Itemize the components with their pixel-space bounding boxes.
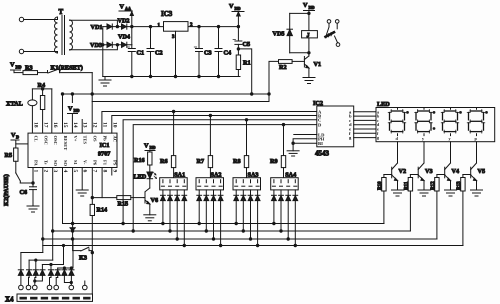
transformer T (55, 8, 73, 55)
svg-text:X4: X4 (5, 296, 14, 304)
wire bridge top line (103, 26, 132, 28)
diode matrix D6 (55, 268, 60, 275)
diode SA3 column 3 (248, 190, 253, 240)
wire R2 left to V rail vertical (268, 61, 279, 101)
switch K3 (73, 239, 92, 268)
wire R13 to bus (462, 245, 464, 247)
node VD1-VD2 junction (116, 25, 118, 27)
capacitor C4 (215, 27, 231, 77)
wire secondary bottom to bridge (70, 45, 117, 50)
svg-text:S1: S1 (73, 160, 78, 166)
wire secondary top to bridge (70, 20, 117, 26)
IC1 top pin numbers (33, 122, 118, 128)
diode SA3 column 2 (241, 190, 246, 232)
switch SA4 (271, 172, 299, 190)
svg-text:V5: V5 (478, 168, 486, 175)
diode SA2 column 4 (218, 190, 223, 247)
svg-text:RESET: RESET (63, 136, 68, 151)
wire C5 junction to V rail line (237, 48, 252, 94)
terminal circle 2 (26, 285, 31, 290)
wire matrix diode D5 to terminal (50, 275, 52, 285)
wire bridge bottom line (103, 44, 132, 46)
LED display input pin labels (377, 109, 380, 140)
resistor R6 (160, 112, 176, 178)
bus line L3 (43, 238, 437, 240)
node IC3 output rail (237, 25, 239, 27)
svg-text:LED: LED (134, 174, 147, 181)
svg-text:DD: DD (74, 108, 80, 113)
node VD3-VD4 junction (116, 44, 118, 46)
IC1 inside bottom labels (34, 160, 118, 167)
supply V rail after bridge (119, 4, 133, 49)
svg-text:K3: K3 (79, 255, 87, 262)
svg-text:16: 16 (52, 122, 58, 128)
ground rail power supply (103, 75, 240, 77)
capacitor C2 (147, 27, 163, 77)
switch SA2 (196, 172, 224, 190)
svg-text:R5: R5 (5, 152, 13, 159)
svg-text:V+: V+ (73, 136, 78, 142)
svg-text:R9: R9 (270, 158, 278, 165)
svg-text:V1: V1 (314, 61, 322, 68)
svg-text:12: 12 (92, 122, 98, 128)
resistor R7 (197, 116, 213, 178)
resistor R9 (270, 125, 286, 178)
wire pin8 drop (101, 168, 103, 198)
supply V pin14 (68, 94, 80, 133)
diode matrix D4 (40, 265, 45, 276)
terminal stub unused (84, 281, 86, 285)
node C4 top (217, 25, 219, 27)
svg-text:C3: C3 (204, 50, 212, 57)
terminal circle 6 (69, 285, 74, 290)
wire pin9 stub (111, 168, 113, 176)
svg-text:T: T (59, 8, 64, 16)
svg-text:C5: C5 (243, 41, 251, 48)
diode SA1 column 2 (168, 190, 173, 232)
wire rail to IC3 input (132, 26, 164, 28)
LED display box (376, 101, 495, 142)
terminal circle 4 (47, 285, 52, 290)
ground symbol power supply (99, 77, 111, 87)
supply V rail IC3 output (229, 3, 244, 41)
terminal input bottom (19, 49, 56, 53)
wire IC2 BI (293, 142, 317, 144)
diode SA2 column 1 (197, 190, 202, 225)
diode matrix rail H1 (21, 252, 43, 254)
resistor R5 (5, 144, 29, 173)
seven-segment digit 4 (467, 108, 485, 136)
svg-text:LED: LED (377, 101, 390, 108)
diode SA4 column 2 (279, 190, 284, 232)
decimal point digit 4 (485, 111, 488, 114)
svg-text:9707: 9707 (98, 151, 110, 158)
wire R10 to bus (383, 223, 385, 225)
wire IC2 PH to ground (292, 139, 317, 151)
wire IC2 LD stub (294, 134, 317, 136)
svg-text:V: V (68, 106, 73, 113)
svg-text:DD: DD (16, 65, 22, 70)
op IC3 regulator (158, 10, 194, 77)
wire relay top node (290, 12, 310, 14)
switch SA1 (160, 172, 188, 190)
terminal input top (19, 17, 56, 21)
IC1 inside top labels (34, 136, 118, 151)
ground symbol V2 emitter (392, 190, 404, 196)
svg-text:OSC: OSC (53, 136, 58, 145)
svg-text:SO: SO (53, 160, 58, 167)
diode SA2 column 3 (211, 190, 216, 240)
svg-text:R1: R1 (243, 60, 251, 67)
wire matrix diode D4 to terminal (34, 275, 43, 282)
resistor R11 (404, 175, 418, 232)
terminal circle 7 (83, 285, 88, 290)
svg-text:R14: R14 (97, 207, 108, 214)
svg-text:XTAL: XTAL (6, 101, 23, 108)
diode SA2 column 2 (204, 190, 209, 232)
resistor R8 (233, 120, 249, 178)
wire pin1 drop (32, 168, 34, 187)
diode matrix D8 (69, 268, 74, 275)
IC2 right pin labels (349, 109, 352, 140)
wire matrix diode D8 to terminal (70, 275, 72, 285)
svg-text:V: V (303, 2, 308, 9)
diode matrix D7 (62, 268, 67, 275)
svg-text:R2: R2 (279, 64, 287, 71)
svg-text:IC1: IC1 (100, 142, 110, 149)
wire pin7 drop to R14 (91, 168, 93, 205)
IC2 left pin labels (318, 109, 325, 146)
capacitor C6 (20, 187, 37, 206)
relay contact circles (327, 20, 340, 47)
svg-text:g: g (377, 135, 379, 140)
wire matrix diode D1 to terminal (20, 275, 22, 285)
svg-text:BI: BI (318, 141, 323, 146)
diode matrix rail H4 (58, 267, 73, 269)
terminal circle 5 (54, 285, 59, 290)
wire pin5 diode to K3 (71, 230, 73, 251)
capacitor C1 (127, 47, 144, 77)
terminal circle 1 (19, 285, 24, 290)
svg-text:VD1: VD1 (91, 24, 103, 31)
diode SA3 column 4 (255, 190, 260, 247)
wire matrix diode D6 to terminal (56, 275, 58, 285)
svg-text:SO: SO (63, 160, 68, 167)
svg-text:C4: C4 (224, 50, 232, 57)
svg-text:VD5: VD5 (273, 31, 285, 38)
diode SA4 column 3 (286, 190, 291, 240)
svg-text:14: 14 (72, 122, 78, 128)
svg-text:C2: C2 (155, 50, 163, 57)
svg-text:R8: R8 (233, 158, 241, 165)
wire R12 to bus (436, 238, 438, 240)
bus line L1 (63, 223, 384, 225)
wire matrix feed from L4 (62, 244, 64, 264)
diode VD3 (90, 42, 112, 49)
wire BCD line C (122, 119, 317, 225)
relay coil J (302, 13, 318, 56)
decimal point digit 3 (459, 111, 462, 114)
svg-text:V: V (229, 3, 234, 10)
switch K1 RESET (48, 65, 93, 74)
colon dot (433, 127, 436, 130)
crystal XTAL (6, 89, 37, 133)
wire R15 feed line (92, 197, 117, 199)
diode SA1 column 3 (175, 190, 180, 240)
svg-text:V: V (120, 4, 125, 11)
svg-text:CL: CL (34, 136, 39, 142)
svg-text:V-: V- (83, 160, 88, 165)
node C2 top (149, 25, 151, 27)
svg-text:9: 9 (111, 170, 117, 173)
wire K1 drop to V line (91, 73, 93, 102)
svg-text:V: V (144, 143, 149, 150)
capacitor C3 (194, 27, 211, 77)
diode matrix D5 (48, 265, 53, 276)
diode SA1 column 4 (182, 190, 187, 247)
ground symbol V3 emitter (418, 190, 430, 196)
svg-text:AC: AC (112, 136, 117, 143)
svg-text:V6: V6 (151, 197, 159, 204)
wire K3 to X4 (91, 251, 93, 294)
svg-text:Pb: Pb (102, 136, 107, 142)
wire BCD line B (112, 114, 317, 133)
switch SA3 (233, 172, 261, 190)
resistor R1 (236, 55, 250, 77)
svg-text:C6: C6 (20, 189, 28, 196)
svg-text:4543: 4543 (315, 149, 330, 157)
wire matrix diode D2 to terminal (28, 275, 31, 285)
diode matrix rail H2 (29, 259, 53, 261)
wire pin4 drop to bus L1 (62, 168, 64, 224)
wire pin15 drop (62, 94, 64, 133)
svg-text:18: 18 (33, 122, 39, 128)
resistor R12 (431, 175, 445, 240)
wire pin2 drop to matrix (42, 168, 44, 253)
svg-text:OSC: OSC (43, 136, 48, 145)
transistor V6 (144, 188, 158, 215)
svg-text:DD: DD (150, 145, 156, 150)
relay contact armature (326, 27, 335, 38)
terminal circle 3 (33, 285, 38, 290)
supply V relay (303, 2, 315, 13)
wire pin5 drop (71, 168, 73, 228)
resistor R4 (38, 82, 46, 133)
op IC2 4543 (313, 100, 354, 157)
diode VD2 (118, 18, 130, 30)
ground symbol V4 emitter (445, 190, 457, 196)
supply V R16 (144, 143, 156, 153)
diode matrix D2 (27, 260, 32, 275)
node rail C1 top (131, 25, 133, 27)
svg-text:K2(PAUSE): K2(PAUSE) (3, 174, 10, 206)
ground symbol pin6 (76, 168, 88, 197)
seven-segment digit 2 (415, 108, 433, 136)
wire R11 to bus (409, 230, 411, 232)
op-amp IC1 9707 (28, 133, 117, 167)
wire matrix diode D7 to terminal (64, 275, 72, 283)
svg-text:IC3: IC3 (161, 10, 173, 18)
transistor V4 (445, 142, 459, 190)
wire relay bottom node (290, 52, 310, 54)
svg-text:V2: V2 (399, 168, 407, 175)
svg-text:15: 15 (62, 122, 68, 128)
svg-text:AA: AA (125, 6, 131, 11)
ground symbol C6 (27, 206, 39, 212)
wire matrix diode D3 to terminal (35, 275, 36, 285)
supply V R3 reset (10, 62, 23, 73)
wire BCD line A (102, 110, 317, 133)
svg-text:V3: V3 (425, 168, 433, 175)
wire BCD line D (132, 123, 317, 232)
wire bridge left vertical to ground rail (102, 27, 104, 77)
resistor R14 (90, 204, 107, 253)
diode VD4 (118, 34, 130, 48)
svg-text:13: 13 (82, 122, 88, 128)
wire pin3 drop to matrix (52, 168, 54, 261)
supply V R5 (11, 132, 19, 148)
resistor R2 (279, 60, 305, 71)
connector X4 pins (20, 297, 91, 300)
svg-text:C1: C1 (137, 50, 145, 57)
ground symbol V5 emitter (471, 190, 483, 196)
transistor V5 (471, 142, 485, 190)
svg-text:P6: P6 (93, 160, 98, 166)
svg-text:17: 17 (42, 122, 48, 128)
resistor R16 (134, 152, 152, 172)
svg-text:VD4: VD4 (118, 34, 130, 41)
decimal point digit 2 (433, 111, 436, 114)
svg-text:TES: TES (83, 136, 88, 145)
svg-text:PS: PS (112, 160, 117, 166)
diode matrix D1 (18, 253, 23, 276)
diode SA4 column 4 (293, 190, 298, 247)
ground symbol V6 (144, 215, 156, 221)
diode VD1 (91, 24, 113, 31)
svg-text:V4: V4 (452, 168, 460, 175)
transistor V2 (392, 142, 406, 190)
svg-text:VD3: VD3 (90, 42, 102, 49)
resistor R15 (117, 196, 144, 208)
ground symbol IC2 (287, 151, 299, 156)
bus line L2 (53, 230, 411, 232)
diode SA3 column 1 (234, 190, 239, 225)
diode pin5 (70, 228, 75, 231)
resistor R10 (378, 175, 392, 224)
wire pin13 stub (81, 120, 83, 134)
switch K2 PAUSE (3, 173, 33, 206)
diode matrix rail H3 (42, 263, 63, 265)
diode matrix D3 (33, 260, 38, 275)
transistor V3 (418, 142, 432, 190)
svg-text:DD: DD (235, 6, 241, 11)
wire pin16 leg (51, 89, 53, 133)
svg-text:V: V (10, 62, 15, 69)
wire xtal top bar (32, 88, 51, 90)
seven-segment digit 1 (388, 108, 406, 136)
LED indicator (134, 172, 157, 188)
IC1 bottom pin numbers (33, 170, 118, 173)
svg-text:VD2: VD2 (118, 18, 130, 25)
resistor R13 (457, 175, 471, 246)
bus line L4 (43, 245, 463, 247)
diode SA1 column 1 (161, 190, 166, 225)
diode SA4 column 1 (272, 190, 277, 225)
diode VD5 (273, 13, 293, 52)
capacitor C5 (233, 40, 250, 56)
wires IC2 outputs a-g to display (354, 112, 376, 138)
svg-text:R16: R16 (134, 157, 145, 164)
resistor R3 (23, 65, 48, 75)
transistor V1 (304, 56, 321, 78)
connector X4 (5, 294, 93, 304)
svg-text:OS: OS (93, 136, 98, 143)
ground symbol V1 emitter (303, 78, 315, 84)
svg-text:Ts: Ts (43, 160, 48, 165)
node C3 top (198, 25, 200, 27)
wire hairpin return to pin12 (92, 102, 269, 134)
decimal point digit 1 (406, 111, 409, 114)
svg-text:D: D (16, 135, 19, 140)
svg-text:PA: PA (34, 160, 39, 166)
svg-text:R6: R6 (160, 158, 168, 165)
svg-text:R7: R7 (197, 158, 205, 165)
wire V distribution line y94 (61, 93, 269, 95)
svg-text:DD: DD (309, 5, 315, 10)
svg-text:F1: F1 (102, 160, 107, 166)
wire IC3 output (188, 26, 238, 28)
seven-segment digit 3 (441, 108, 459, 136)
